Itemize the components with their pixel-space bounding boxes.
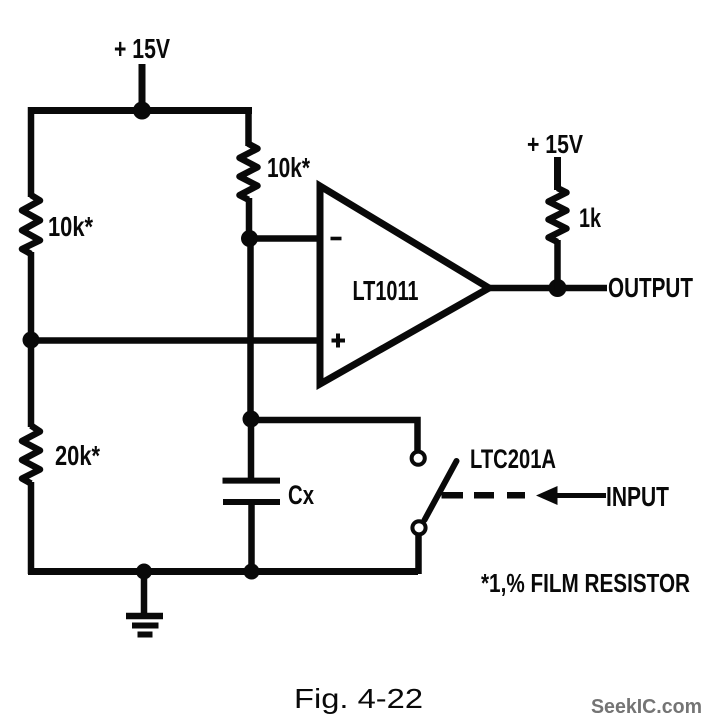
resistor 10k* (top) xyxy=(240,144,258,200)
ground symbol xyxy=(126,574,163,635)
switch LTC201A top contact circle xyxy=(412,452,425,465)
wire: switch branch horizontal and corner down xyxy=(251,420,418,451)
arrow head (INPUT, pointing left) xyxy=(536,486,558,505)
wire: minus input stub to op-amp xyxy=(249,235,322,242)
wire: +15V stub down to top rail xyxy=(139,64,146,112)
capacitor Cx plates xyxy=(223,481,281,502)
arrow tail line xyxy=(555,493,606,498)
wire: 1k down to output node xyxy=(554,240,561,291)
svg-text:+ 15V: + 15V xyxy=(527,129,584,159)
svg-text:10k*: 10k* xyxy=(267,152,310,183)
svg-text:Cx: Cx xyxy=(288,480,314,510)
switch LTC201A bottom contact circle xyxy=(412,521,425,534)
wire: left rail lower segment xyxy=(28,340,35,427)
switch blade xyxy=(425,461,457,520)
wire: 10k to minus-input node xyxy=(246,198,253,242)
node: output junction dot xyxy=(549,279,567,297)
op-amp plus sign xyxy=(332,334,346,348)
wire: top rail horizontal xyxy=(28,107,252,114)
svg-text:OUTPUT: OUTPUT xyxy=(608,272,693,303)
dashed actuation line xyxy=(442,492,526,499)
op-amp minus sign xyxy=(331,237,342,241)
node: left mid junction dot xyxy=(23,332,40,349)
svg-text:+ 15V: + 15V xyxy=(114,33,170,64)
wire: left rail between 10k and mid node xyxy=(28,252,35,344)
node: bottom rail capacitor junction dot xyxy=(244,564,260,580)
wire: left rail bottom segment xyxy=(28,482,35,574)
wire: bottom rail xyxy=(28,568,418,575)
resistor 10k* (left) xyxy=(22,195,40,254)
resistor 1k xyxy=(549,188,567,242)
wire: left rail upper segment xyxy=(28,107,35,197)
svg-text:Fig. 4-22: Fig. 4-22 xyxy=(294,683,423,714)
svg-text:INPUT: INPUT xyxy=(606,481,669,512)
svg-text:*1,% FILM RESISTOR: *1,% FILM RESISTOR xyxy=(481,568,690,598)
node: minus input junction dot xyxy=(241,230,258,247)
wire: switch node down to capacitor xyxy=(248,419,255,481)
wire: capacitor to bottom rail xyxy=(248,502,255,574)
svg-text:10k*: 10k* xyxy=(48,211,93,242)
wire: right +15V stub xyxy=(554,157,561,190)
node: top rail junction dot xyxy=(133,102,151,120)
wire: bottom contact down to bottom rail xyxy=(415,534,422,574)
op-amp U1 LT1011 triangle xyxy=(320,186,489,384)
svg-text:20k*: 20k* xyxy=(55,440,100,471)
wire: vertical rail from minus node down to switch node xyxy=(247,238,254,422)
wire: mid rail to op-amp + input xyxy=(31,337,322,344)
wire: op-amp output to OUTPUT label xyxy=(487,285,607,292)
svg-text:LTC201A: LTC201A xyxy=(470,444,556,474)
node: switch branch junction dot xyxy=(243,411,260,428)
svg-text:1k: 1k xyxy=(579,203,602,233)
svg-text:SeekIC.com: SeekIC.com xyxy=(591,696,702,718)
wire: top rail drop to 10k (top) xyxy=(245,107,252,146)
svg-text:LT1011: LT1011 xyxy=(353,275,419,306)
node: ground junction dot xyxy=(136,564,152,580)
resistor 20k* xyxy=(22,426,40,484)
